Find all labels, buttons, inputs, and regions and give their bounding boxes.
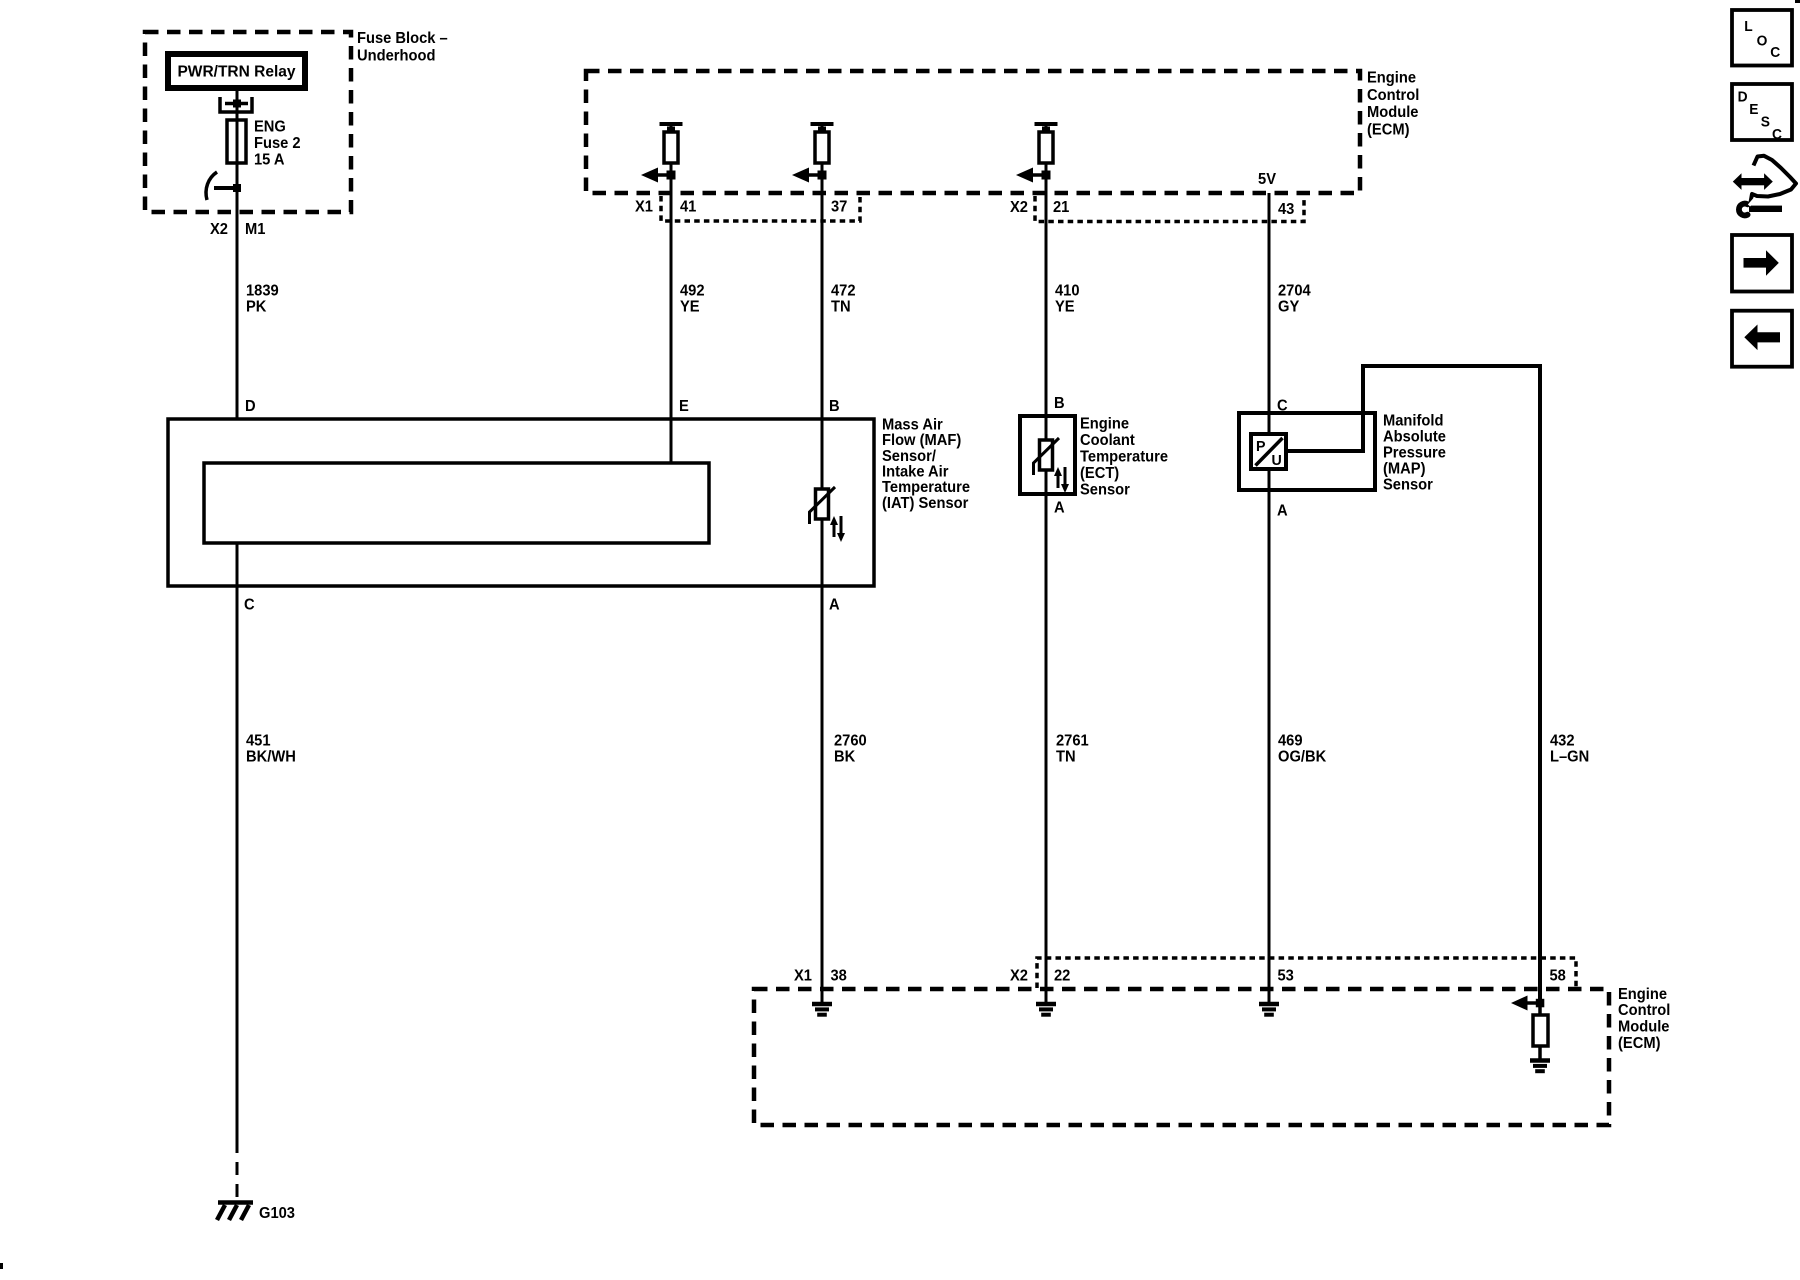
svg-text:L–GN: L–GN xyxy=(1550,748,1589,766)
svg-text:L: L xyxy=(1744,19,1753,36)
svg-text:YE: YE xyxy=(680,298,700,316)
svg-text:U: U xyxy=(1272,453,1282,469)
svg-text:B: B xyxy=(829,397,840,415)
svg-text:Fuse 2: Fuse 2 xyxy=(254,134,301,152)
svg-text:D: D xyxy=(1738,89,1748,106)
svg-text:X2: X2 xyxy=(1010,967,1028,985)
svg-text:(ECM): (ECM) xyxy=(1618,1034,1660,1052)
svg-text:Control: Control xyxy=(1618,1002,1670,1020)
svg-text:E: E xyxy=(1749,101,1759,118)
svg-text:58: 58 xyxy=(1550,967,1567,985)
svg-text:37: 37 xyxy=(831,198,847,216)
svg-text:15 A: 15 A xyxy=(254,151,285,169)
svg-text:ENG: ENG xyxy=(254,118,286,136)
svg-text:P: P xyxy=(1256,439,1266,455)
svg-text:21: 21 xyxy=(1053,198,1070,216)
svg-text:Sensor: Sensor xyxy=(1383,476,1433,494)
svg-text:Engine: Engine xyxy=(1080,415,1129,433)
svg-text:Engine: Engine xyxy=(1367,69,1416,87)
svg-text:YE: YE xyxy=(1055,298,1075,316)
svg-text:(IAT) Sensor: (IAT) Sensor xyxy=(882,494,968,512)
svg-text:M1: M1 xyxy=(245,220,266,238)
svg-text:E: E xyxy=(679,397,689,415)
svg-text:C: C xyxy=(1772,127,1783,144)
svg-text:Fuse Block –: Fuse Block – xyxy=(357,29,448,47)
svg-text:BK/WH: BK/WH xyxy=(246,748,296,766)
svg-text:O: O xyxy=(1757,33,1768,50)
svg-text:41: 41 xyxy=(680,198,697,216)
svg-text:C: C xyxy=(1277,397,1288,415)
svg-text:D: D xyxy=(245,397,256,415)
svg-text:38: 38 xyxy=(831,967,848,985)
svg-text:Coolant: Coolant xyxy=(1080,432,1135,450)
svg-text:GY: GY xyxy=(1278,298,1299,316)
svg-text:Underhood: Underhood xyxy=(357,47,435,65)
svg-text:(ECM): (ECM) xyxy=(1367,121,1409,139)
svg-text:X1: X1 xyxy=(635,198,653,216)
svg-text:A: A xyxy=(1277,502,1288,520)
svg-text:C: C xyxy=(1770,44,1781,61)
svg-text:43: 43 xyxy=(1278,200,1294,218)
svg-text:TN: TN xyxy=(1056,748,1076,766)
svg-text:Engine: Engine xyxy=(1618,985,1667,1003)
svg-text:Sensor: Sensor xyxy=(1080,481,1130,499)
svg-text:22: 22 xyxy=(1054,967,1070,985)
svg-text:OG/BK: OG/BK xyxy=(1278,748,1326,766)
svg-text:53: 53 xyxy=(1278,967,1294,985)
svg-text:PWR/TRN Relay: PWR/TRN Relay xyxy=(177,63,295,80)
svg-text:X2: X2 xyxy=(1010,198,1028,216)
svg-text:A: A xyxy=(1054,499,1065,517)
svg-text:Control: Control xyxy=(1367,86,1419,104)
svg-text:G103: G103 xyxy=(259,1204,295,1222)
svg-text:PK: PK xyxy=(246,298,266,316)
svg-text:S: S xyxy=(1761,114,1771,131)
svg-text:X1: X1 xyxy=(794,967,812,985)
svg-text:Module: Module xyxy=(1367,104,1419,122)
svg-text:Module: Module xyxy=(1618,1018,1670,1036)
svg-text:TN: TN xyxy=(831,298,851,316)
svg-text:B: B xyxy=(1054,394,1065,412)
svg-text:A: A xyxy=(829,596,840,614)
svg-text:C: C xyxy=(244,596,255,614)
svg-text:5V: 5V xyxy=(1258,170,1277,188)
svg-text:BK: BK xyxy=(834,748,855,766)
svg-text:(ECT): (ECT) xyxy=(1080,465,1119,483)
svg-text:X2: X2 xyxy=(210,220,228,238)
svg-text:Temperature: Temperature xyxy=(1080,448,1168,466)
